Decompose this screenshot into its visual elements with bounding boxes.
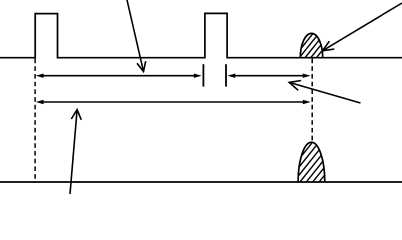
wire: dashed reference line at echo position (311, 59, 313, 142)
node: received echo pulse E2 (hatched dome on bottom line) (278, 140, 359, 185)
node: tick mark at pulse P2 falling edge (225, 64, 227, 86)
wire: dimension arrow T1 (pulse repetition interval) (36, 74, 202, 78)
wire: dashed reference line at pulse P1 rising edge (34, 59, 36, 182)
wire: dimension arrow T3 (total round-trip time) (36, 100, 311, 104)
wire: dimension arrow T2 (echo delay from pulse P2) (227, 74, 310, 78)
wire: transmitted pulse train waveform (baseline with pulse P1 and pulse P2) (0, 13, 402, 57)
wire: receiver time axis (bottom line) (0, 181, 402, 183)
wire: annotation arrow B (from top right pointing to echo E1) (322, 3, 402, 51)
wire: annotation arrow C (from right pointing to dimension T2) (289, 81, 360, 104)
node: tick mark at pulse P2 rising edge (202, 64, 204, 86)
wire: annotation arrow A (from top pointing to interval T1) (127, 0, 146, 72)
wire: annotation arrow D (from bottom pointing to dimension T3) (70, 110, 81, 194)
node: echo pulse E1 (hatched dome on top baseline) (291, 31, 344, 61)
